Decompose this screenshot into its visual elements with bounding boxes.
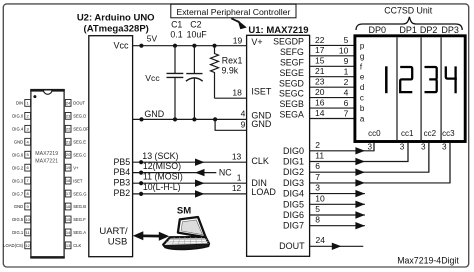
arrow to U1 [231,18,247,29]
svg-text:13 (SCK): 13 (SCK) [142,151,178,161]
capacitor C1 0.1 [167,46,184,120]
svg-text:8: 8 [315,215,320,225]
svg-text:16: 16 [66,204,71,209]
DIP pin 6 DIG.2 [12,164,30,171]
svg-text:SEFG: SEFG [280,47,304,57]
svg-text:Rex1: Rex1 [222,55,243,65]
svg-text:5: 5 [315,204,320,214]
DIP pin 16 SEG.B [65,203,86,210]
svg-text:14: 14 [315,108,325,118]
seven-segment digit 2 [400,67,412,92]
svg-text:DOUT: DOUT [73,101,85,106]
DIP pin 20 SEG.C [65,151,86,158]
svg-text:External Peripheral Controller: External Peripheral Controller [176,7,290,17]
svg-text:SEG.C: SEG.C [73,152,86,157]
svg-text:5: 5 [344,35,349,45]
wire 5V rail [133,45,247,47]
svg-text:19: 19 [66,165,71,170]
svg-text:10: 10 [25,217,30,222]
svg-text:13: 13 [232,152,242,162]
svg-text:18: 18 [232,88,242,98]
svg-text:20: 20 [315,87,325,97]
svg-text:11 (MOSI): 11 (MOSI) [143,171,183,181]
DIP pin 12 LOAD(CS) [3,242,30,249]
svg-text:MAX7219: MAX7219 [35,151,58,157]
wire DIG1 pin 11 [310,143,408,166]
resistor Rex1 9.9k [211,46,219,98]
seven-segment digit 1 [385,66,388,93]
svg-text:17: 17 [315,45,325,55]
svg-text:cc3: cc3 [442,129,455,138]
laptop icon [163,217,209,249]
svg-text:p: p [360,41,365,50]
DIP pin 19 V+ [65,164,79,171]
wire DIG5 pin 10 [310,193,365,208]
svg-text:14: 14 [66,230,71,235]
svg-text:20: 20 [66,152,71,157]
svg-text:1: 1 [237,173,242,183]
svg-text:ISET: ISET [251,87,272,97]
DIP pin 23 SEG.D [65,112,86,119]
svg-text:3: 3 [442,143,447,152]
svg-text:DIG6: DIG6 [283,210,304,220]
svg-text:UART/: UART/ [99,226,128,237]
svg-text:3: 3 [367,143,372,152]
DIP pin 13 CLK [65,242,81,249]
wire to U1 pin 9 [215,119,247,130]
svg-text:b: b [360,104,365,113]
svg-text:3: 3 [421,143,426,152]
svg-text:c: c [360,94,364,103]
svg-text:PB5: PB5 [113,157,130,167]
svg-text:7: 7 [315,172,320,182]
svg-text:Vcc: Vcc [145,73,160,83]
svg-text:MAX7221: MAX7221 [35,159,58,165]
wire PB2 to LOAD [133,190,247,197]
svg-text:12: 12 [25,243,30,248]
svg-text:C2: C2 [190,20,201,30]
wire SEG row 15 to 9 [310,56,354,67]
svg-text:SEGF: SEGF [280,57,305,67]
svg-text:SEG.G: SEG.G [73,191,86,196]
brace over display [356,17,462,30]
DIP pin 21 SEG.E [65,138,86,145]
wire SEG row 14 to 7 [310,108,354,119]
svg-text:LOAD: LOAD [251,187,276,197]
svg-text:DIG7: DIG7 [283,221,304,231]
svg-text:19: 19 [233,35,243,45]
svg-text:10: 10 [339,46,349,56]
svg-text:cc1: cc1 [401,129,414,138]
DIP pin 1 DIN [16,100,31,107]
svg-text:21: 21 [315,66,325,76]
svg-text:SEG.F: SEG.F [73,217,86,222]
svg-text:DIG0: DIG0 [283,146,304,156]
junction dot [139,117,143,121]
DIP pin 11 DIG.1 [12,229,30,236]
DIP pin 5 DIG.6 [12,151,30,158]
svg-text:DIG.0: DIG.0 [12,114,24,119]
svg-text:SEGDP: SEGDP [273,37,304,47]
svg-text:18: 18 [66,178,71,183]
svg-text:3: 3 [315,183,320,193]
wire PB5 SCK to CLK [133,159,247,166]
label U2 title [77,13,155,35]
wire SEG row 17 to 10 [310,45,354,56]
svg-text:24: 24 [316,235,326,245]
svg-text:2: 2 [344,77,349,87]
svg-text:DIG4: DIG4 [283,189,304,199]
svg-text:DOUT: DOUT [279,241,305,251]
wire DIG4 pin 3 [310,183,365,198]
svg-text:DIG.5: DIG.5 [12,217,24,222]
svg-text:LOAD(CS): LOAD(CS) [3,243,24,248]
box External Peripheral Controller [171,4,296,18]
svg-text:SEGE: SEGE [279,68,304,78]
svg-text:4: 4 [241,109,246,119]
svg-text:V+: V+ [251,37,262,47]
svg-text:9.9k: 9.9k [222,65,239,75]
svg-text:12: 12 [232,183,242,193]
svg-text:SEGA: SEGA [279,110,304,120]
svg-text:10: 10 [315,193,325,203]
svg-text:SEG.E: SEG.E [73,139,86,144]
svg-text:10(L-H-L): 10(L-H-L) [143,182,181,192]
svg-text:4: 4 [344,87,349,97]
UART/USB double arrow [133,231,170,241]
svg-text:SEGC: SEGC [279,89,305,99]
svg-text:2: 2 [315,140,320,150]
svg-text:C1: C1 [171,20,182,30]
svg-text:9: 9 [344,56,349,66]
wire DIG2 pin 6 [310,143,429,176]
svg-text:ISET: ISET [73,178,83,183]
svg-text:13: 13 [66,243,71,248]
junction dot [173,44,177,48]
svg-text:SM: SM [177,205,191,216]
svg-text:Vcc: Vcc [113,41,129,51]
svg-text:CC7SD Unit: CC7SD Unit [384,6,432,16]
svg-text:6: 6 [344,98,349,108]
wire DIG7 pin 8 [310,215,365,230]
wire SEG row 16 to 6 [310,98,354,109]
display cc1 pin stub [400,143,408,162]
DIP pin 15 SEG.F [65,216,86,223]
svg-text:24: 24 [66,100,71,105]
wire PB3 MOSI to DIN [133,180,247,187]
svg-text:DP2: DP2 [420,25,438,35]
wire SEG row 21 to 1 [310,66,354,77]
DIP pin 14 SEG.A [65,229,86,236]
svg-text:Max7219-4Digit: Max7219-4Digit [397,256,459,266]
svg-text:GND: GND [14,204,23,209]
svg-text:(ATmega328P): (ATmega328P) [84,24,149,35]
svg-text:SEGD: SEGD [279,78,304,88]
junction dot [139,44,143,48]
wire DIG0 pin 2 [310,140,374,155]
DIP pin 24 DOUT [65,100,85,107]
svg-text:23: 23 [66,113,71,118]
svg-text:DIG1: DIG1 [283,157,304,167]
svg-text:PB3: PB3 [113,177,130,187]
wire SEG row 22 to 5 [310,35,354,46]
svg-text:7: 7 [344,108,349,118]
svg-text:DIG.7: DIG.7 [12,191,24,196]
svg-text:12(MISO): 12(MISO) [143,161,181,171]
svg-text:CLK: CLK [73,243,81,248]
svg-text:GND: GND [251,119,272,129]
svg-text:3: 3 [400,143,405,152]
svg-text:DIG3: DIG3 [283,178,304,188]
svg-text:5V: 5V [147,34,158,44]
svg-text:U1: MAX7219: U1: MAX7219 [248,25,308,36]
svg-text:SEG.A: SEG.A [73,230,86,235]
block U1 MAX7219 [247,35,310,256]
svg-text:cc2: cc2 [424,129,437,138]
display cc2 pin stub [421,143,429,173]
seven-segment digit 3 [425,67,437,92]
display cc3 pin stub [442,143,450,183]
svg-text:e: e [360,73,365,82]
DIP pin 10 DIG.5 [12,216,30,223]
capacitor C2 10uF [186,46,203,120]
svg-text:DP1: DP1 [399,25,417,35]
svg-text:cc0: cc0 [368,129,381,138]
DIP pin 22 SEG.DP [65,125,89,132]
wire SEG row 20 to 4 [310,87,354,98]
svg-text:V+: V+ [73,165,79,170]
junction dot [192,44,196,48]
wire ISET [215,97,247,99]
svg-text:DIG.2: DIG.2 [12,165,24,170]
svg-text:6: 6 [315,161,320,171]
svg-text:15: 15 [66,217,71,222]
svg-text:DP3: DP3 [441,25,459,35]
wire SEG row 23 to 2 [310,77,354,88]
DIP pin 4 GND [14,138,31,145]
DIP pin 17 SEG.G [65,190,86,197]
svg-text:DIG5: DIG5 [283,199,304,209]
svg-text:DIN: DIN [16,101,23,106]
wire GND rail [133,118,247,120]
svg-text:DIG2: DIG2 [283,167,304,177]
svg-text:USB: USB [108,237,128,248]
DIP pin 3 DIG.4 [12,125,30,132]
svg-text:10uF: 10uF [187,30,208,40]
DIP pin 9 GND [14,203,31,210]
svg-text:PB4: PB4 [113,167,130,177]
svg-text:11: 11 [315,151,324,161]
pin label UART/USB [99,226,128,248]
svg-text:21: 21 [66,139,71,144]
junction dot [173,117,177,121]
svg-text:22: 22 [315,35,325,45]
junction dot [192,117,196,121]
svg-text:GND: GND [144,109,164,119]
svg-text:22: 22 [66,126,71,131]
wire DOUT pin 24 [310,235,364,250]
svg-text:CLK: CLK [251,156,269,166]
svg-text:23: 23 [315,77,325,87]
wire DIG3 pin 7 [310,143,450,187]
svg-text:SEG.D: SEG.D [73,114,86,119]
seven-segment digit 4 [446,66,457,93]
svg-text:g: g [360,52,364,61]
svg-text:0.1: 0.1 [170,30,182,40]
block U2 Arduino UNO [89,36,133,257]
wire DIG6 pin 5 [310,204,365,219]
DIP pin 2 DIG.0 [12,112,30,119]
svg-text:PB2: PB2 [113,188,130,198]
svg-text:a: a [360,115,365,124]
svg-text:16: 16 [315,98,325,108]
svg-text:NC: NC [219,168,232,178]
svg-text:DIG.4: DIG.4 [12,127,24,132]
display cc0 pin stub [367,143,374,152]
svg-text:GND: GND [14,139,23,144]
svg-text:DIG.1: DIG.1 [12,230,24,235]
svg-text:SEG.DP: SEG.DP [73,127,89,132]
junction dot [213,117,217,121]
svg-text:17: 17 [66,191,71,196]
DIP pin 7 DIG.3 [12,177,30,184]
svg-text:15: 15 [315,56,325,66]
svg-text:1: 1 [344,67,349,77]
display CC7SD box [355,36,465,142]
svg-text:DIG.3: DIG.3 [12,178,24,183]
DIP pin 8 DIG.7 [12,190,30,197]
IC DIP package MAX7219/MAX7221 pinout [30,90,64,259]
svg-text:U2: Arduino UNO: U2: Arduino UNO [77,13,155,24]
svg-text:DP0: DP0 [369,25,387,35]
svg-text:d: d [360,83,364,92]
svg-text:DIG.6: DIG.6 [12,152,24,157]
junction dot [212,44,216,48]
svg-text:9: 9 [241,119,246,129]
wire PB4 MISO to NC [133,169,217,176]
svg-text:SEGB: SEGB [279,99,304,109]
DIP pin 18 ISET [65,177,83,184]
svg-text:SEG.B: SEG.B [73,204,86,209]
